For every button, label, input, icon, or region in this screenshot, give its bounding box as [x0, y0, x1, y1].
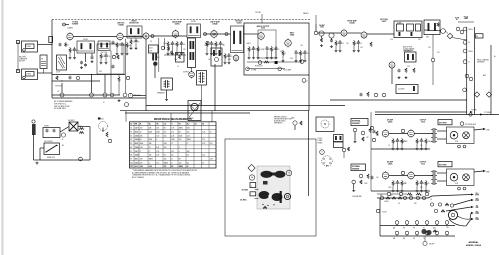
tube V10 FM RF — [341, 29, 347, 37]
svg-text:33K: 33K — [418, 39, 421, 41]
svg-text:SC: SC — [149, 124, 151, 126]
svg-text:33K: 33K — [262, 49, 265, 51]
capacitor C1 — [59, 43, 62, 47]
svg-text:10: 10 — [284, 53, 286, 55]
svg-text:68: 68 — [398, 203, 400, 205]
svg-text:OUTPUT: OUTPUT — [420, 120, 427, 122]
socket top view dashed — [322, 156, 332, 166]
T1 bottom parts — [80, 53, 87, 69]
row C labels — [393, 237, 425, 240]
ground G1 — [36, 162, 39, 165]
svg-text:220K: 220K — [156, 57, 160, 59]
bottom bus of AM section — [52, 97, 146, 99]
audio output label box — [149, 45, 159, 53]
heater line 2 — [246, 67, 292, 72]
svg-text:12K: 12K — [366, 137, 369, 139]
B- bus — [120, 110, 309, 112]
svg-text:TO PWR: TO PWR — [471, 110, 477, 112]
drum exits — [466, 212, 479, 227]
svg-text:12: 12 — [210, 132, 212, 134]
svg-text:D1: D1 — [195, 124, 197, 126]
dial drum — [448, 210, 470, 226]
svg-text:12BE6: 12BE6 — [135, 139, 139, 141]
fm ant top wire — [303, 12, 316, 24]
svg-text:2.2K: 2.2K — [407, 66, 410, 68]
tube V13 FM det — [389, 61, 395, 69]
svg-text:V3: V3 — [130, 135, 132, 137]
resistance table — [130, 122, 217, 168]
svg-text:R53: R53 — [410, 195, 413, 197]
svg-text:SHIELD: SHIELD — [318, 142, 323, 144]
resistor R17 — [103, 93, 107, 97]
svg-text:270: 270 — [210, 143, 213, 145]
row1 label — [387, 119, 394, 124]
svg-text:50C5: 50C5 — [261, 28, 265, 30]
alignment diamond A — [248, 164, 255, 171]
svg-text:270: 270 — [179, 162, 182, 164]
svg-text:H2: H2 — [179, 124, 181, 126]
svg-text:100: 100 — [420, 145, 423, 147]
wire V1 plate — [73, 36, 117, 38]
right col circle 2 — [463, 40, 470, 44]
top right corner wire — [455, 18, 474, 23]
svg-text:12BE6: 12BE6 — [135, 147, 139, 149]
FM antenna input — [314, 24, 325, 35]
svg-text:220K: 220K — [204, 45, 208, 47]
svg-text:68: 68 — [468, 42, 470, 44]
switch row C wire — [380, 235, 455, 237]
svg-text:50C5: 50C5 — [149, 47, 153, 49]
svg-text:V5: V5 — [130, 143, 132, 145]
tube V11 — [361, 31, 367, 39]
wire pilot — [133, 95, 146, 97]
svg-text:.5: .5 — [149, 162, 150, 164]
svg-text:12K: 12K — [376, 135, 379, 137]
mid small parts — [342, 147, 349, 158]
power-output section box — [244, 23, 309, 111]
vertical feed x313 — [308, 111, 310, 196]
fm mid cluster — [360, 92, 386, 97]
AM shield left edge — [51, 20, 53, 99]
svg-text:PRINTED CIRCUIT: PRINTED CIRCUIT — [274, 116, 287, 118]
arrow to board 2 — [255, 198, 259, 200]
svg-text:B: B — [288, 173, 289, 175]
bus pair upper — [375, 112, 499, 115]
terminal strip TS1 — [49, 37, 53, 46]
tube V2 12BA6 AM osc — [117, 32, 123, 41]
svg-text:12AV6: 12AV6 — [174, 22, 179, 25]
svg-text:10: 10 — [468, 62, 470, 64]
circled part — [206, 41, 209, 44]
pilot lamp I1 — [128, 93, 132, 97]
switch left vertical — [379, 198, 381, 236]
row1 right stub — [474, 128, 490, 131]
svg-text:68: 68 — [179, 158, 181, 160]
svg-text:270: 270 — [171, 132, 174, 134]
AM tuner shield top (dashed) — [52, 19, 310, 21]
bus drops to table — [126, 111, 212, 122]
mid bus segment — [146, 105, 345, 107]
pilot lamp I2 — [61, 133, 65, 137]
svg-text:TOT: TOT — [130, 166, 133, 168]
svg-text:12BE6: 12BE6 — [67, 28, 72, 30]
svg-text:R51: R51 — [390, 195, 393, 197]
vertical wire x164.3 — [163, 38, 165, 49]
row1 input parts — [370, 112, 378, 150]
svg-text:12: 12 — [140, 132, 142, 134]
top chain dots — [134, 33, 228, 38]
svg-text:4.7K: 4.7K — [140, 147, 143, 149]
svg-text:OUTPUT: OUTPUT — [183, 71, 189, 73]
svg-text:V2: V2 — [130, 132, 132, 134]
bus arrow right — [470, 110, 477, 114]
svg-text:PL: PL — [140, 124, 142, 126]
svg-text:DETECTOR: DETECTOR — [129, 22, 139, 24]
oscillator coil L2 — [98, 41, 110, 51]
IF box 1 — [250, 183, 256, 188]
IF amp drops — [206, 41, 225, 55]
right col circle 3 — [463, 49, 473, 53]
1st audio label — [172, 21, 182, 26]
svg-text:.05: .05 — [132, 42, 134, 44]
svg-text:V6: V6 — [130, 147, 132, 149]
svg-text:BRN: BRN — [487, 171, 490, 173]
svg-text:E: E — [321, 152, 322, 154]
svg-text:SEL RECT: SEL RECT — [68, 120, 75, 122]
svg-text:560K: 560K — [140, 143, 143, 145]
svg-text:ON-OFF: ON-OFF — [429, 244, 434, 246]
capacitor C3 — [112, 41, 115, 45]
onoff circle — [423, 236, 435, 246]
FM rf drops — [335, 40, 362, 52]
IF transformer T3 — [231, 26, 244, 53]
svg-text:50C5: 50C5 — [421, 121, 425, 123]
row B labels — [393, 227, 436, 230]
svg-text:47K: 47K — [107, 56, 110, 58]
svg-text:.05: .05 — [430, 199, 432, 201]
resistor R16 — [90, 93, 94, 97]
svg-text:OUTPUT: OUTPUT — [420, 162, 427, 164]
svg-text:470: 470 — [437, 52, 440, 54]
svg-text:EXT SPKR: EXT SPKR — [439, 122, 447, 124]
svg-text:NC: NC — [171, 166, 173, 168]
svg-text:LOOP: LOOP — [56, 72, 60, 74]
svg-text:220K: 220K — [404, 141, 408, 143]
phono jack bracket — [17, 41, 20, 73]
tube V7 50C5 output — [258, 32, 265, 41]
osc grid drops — [116, 42, 131, 55]
svg-text:2.2K: 2.2K — [156, 155, 159, 157]
svg-text:.001: .001 — [360, 47, 363, 49]
svg-text:SPKR: SPKR — [475, 200, 479, 202]
svg-text:1.2K: 1.2K — [202, 132, 205, 134]
svg-text:12AT7: 12AT7 — [382, 20, 387, 23]
row2 mid drops — [392, 180, 407, 192]
dial lamp — [125, 103, 129, 107]
svg-text:D2: D2 — [202, 124, 204, 126]
svg-text:220: 220 — [171, 151, 174, 153]
switch contact A1 — [380, 196, 383, 199]
svg-text:12: 12 — [171, 143, 173, 145]
svg-text:HTRS 121V: HTRS 121V — [255, 65, 262, 67]
audio transformer bars — [152, 54, 157, 61]
svg-text:.05: .05 — [230, 56, 232, 58]
svg-text:.05: .05 — [277, 49, 279, 51]
heater bus 2 — [52, 80, 100, 82]
svg-text:220K: 220K — [280, 51, 284, 53]
speaker SP2 jacks — [458, 187, 466, 190]
antenna terminal — [63, 23, 70, 26]
svg-text:3.2Ω: 3.2Ω — [455, 141, 458, 143]
svg-text:1: 1 — [251, 185, 252, 187]
svg-text:35W4: 35W4 — [290, 33, 294, 36]
svg-text:10: 10 — [177, 66, 179, 68]
table footnotes — [132, 169, 198, 179]
svg-text:.05: .05 — [427, 183, 429, 185]
external speaker title 2 — [351, 164, 366, 171]
svg-text:10.7MC: 10.7MC — [240, 200, 247, 202]
alignment circle 2A — [249, 175, 254, 180]
tube V8 35W4 rectifier — [285, 39, 292, 48]
svg-text:12K: 12K — [428, 47, 431, 49]
row1 wires — [371, 131, 447, 149]
switch contact A2 — [403, 196, 406, 199]
det drops — [224, 53, 233, 64]
grid drops V1 — [69, 47, 79, 59]
svg-text:1.2K: 1.2K — [187, 135, 190, 137]
svg-text:6BN6: 6BN6 — [135, 143, 139, 145]
switch contact A4 — [416, 196, 419, 199]
svg-text:TUNER: TUNER — [397, 23, 402, 25]
left heater parts — [56, 74, 120, 95]
1st IF transformer T1 455KC — [77, 41, 95, 53]
svg-text:12AV6: 12AV6 — [236, 21, 241, 24]
2nd IF amp label — [210, 21, 220, 26]
svg-text:6BN6: 6BN6 — [135, 158, 139, 160]
bus branch — [125, 112, 250, 114]
resistor R15 47 ohm — [58, 91, 65, 97]
output cluster tube V6B — [183, 71, 194, 79]
row A right exit — [428, 193, 479, 198]
svg-text:270: 270 — [202, 139, 205, 141]
right edge junction — [469, 112, 491, 116]
svg-text:455KC: 455KC — [191, 21, 197, 23]
b+ text — [255, 58, 293, 67]
output transformer T10 — [431, 128, 437, 143]
row1 mid drops — [392, 138, 406, 150]
svg-text:270: 270 — [164, 166, 167, 168]
svg-text:6X4: 6X4 — [101, 119, 104, 121]
svg-text:47: 47 — [202, 162, 204, 164]
alignment note text — [274, 116, 292, 124]
svg-text:H: H — [171, 124, 172, 126]
svg-text:RECORD: RECORD — [19, 57, 27, 59]
volume wire — [164, 54, 186, 56]
interlock text — [47, 144, 64, 159]
wire FM det drop — [391, 68, 393, 84]
trimmer tube A — [319, 31, 324, 47]
vertical wire x158.8 — [158, 38, 160, 72]
svg-text:V7: V7 — [130, 151, 132, 153]
power box drops — [248, 46, 280, 59]
row2 label — [387, 161, 394, 166]
svg-text:PH: PH — [413, 238, 415, 240]
vertical bus x215 — [214, 64, 216, 111]
svg-text:CORD: CORD — [475, 213, 479, 215]
svg-text:8.2K: 8.2K — [187, 128, 190, 130]
svg-text:4.7K: 4.7K — [171, 128, 174, 130]
selenium rectifier SR1 — [68, 120, 78, 131]
sub row B2 — [434, 206, 478, 213]
row2 feed — [370, 150, 372, 191]
svg-text:1.2K: 1.2K — [156, 135, 159, 137]
svg-text:2.2K: 2.2K — [228, 59, 231, 61]
tube socket dashed V9 — [98, 118, 108, 131]
pilot label — [464, 17, 469, 21]
dark bar component — [280, 191, 282, 203]
svg-text:TO PILOT: TO PILOT — [55, 86, 62, 88]
resistor R1 — [65, 43, 67, 47]
svg-text:560K: 560K — [156, 132, 159, 134]
lamp I3 — [79, 157, 83, 161]
svg-text:10K: 10K — [140, 135, 143, 137]
svg-text:10K: 10K — [149, 128, 152, 130]
tube socket blob 1 — [261, 171, 286, 178]
svg-text:SPKR FIELD: SPKR FIELD — [133, 95, 141, 97]
svg-text:TUNER: TUNER — [72, 24, 79, 26]
heater drop 3 — [104, 75, 106, 94]
svg-text:3.2Ω: 3.2Ω — [455, 183, 458, 185]
socket circle B — [286, 170, 292, 176]
svg-text:8.2K: 8.2K — [164, 143, 167, 145]
svg-text:270: 270 — [140, 128, 143, 130]
svg-text:TO SW: TO SW — [382, 212, 387, 214]
svg-text:V9: V9 — [130, 158, 132, 160]
svg-text:560K: 560K — [171, 139, 174, 141]
boxed label 4MEG — [475, 34, 483, 38]
svg-text:4.7K: 4.7K — [202, 143, 205, 145]
svg-text:10.7MC: 10.7MC — [242, 190, 249, 192]
svg-text:33K: 33K — [149, 143, 152, 145]
loop antenna L1 — [56, 55, 67, 74]
row2 bottom chain — [377, 192, 429, 195]
svg-text:2.2K: 2.2K — [171, 135, 174, 137]
svg-text:150: 150 — [202, 155, 205, 157]
svg-text:X: X — [307, 81, 308, 83]
socket small square — [263, 181, 268, 185]
wire xfrmr down — [155, 63, 168, 101]
power inner box — [258, 30, 276, 58]
svg-text:NC: NC — [187, 155, 189, 157]
svg-text:68: 68 — [150, 41, 152, 43]
svg-text:.02: .02 — [67, 45, 69, 47]
svg-text:.001: .001 — [300, 45, 303, 47]
trimmer tube B — [329, 33, 334, 48]
svg-text:6BN6: 6BN6 — [135, 132, 139, 134]
rect drops — [282, 50, 310, 62]
svg-text:117V: 117V — [290, 58, 293, 60]
sub row B1 — [430, 199, 478, 208]
svg-text:PL2: PL2 — [187, 124, 190, 126]
svg-text:R50: R50 — [380, 195, 383, 197]
heater drop 1 — [61, 83, 63, 93]
svg-text:220: 220 — [179, 139, 182, 141]
ext2 cluster — [352, 174, 374, 192]
model text — [466, 241, 481, 247]
svg-text:21.75MC DISC: 21.75MC DISC — [404, 50, 414, 52]
tube V1 12BE6 converter — [67, 32, 73, 41]
capacitor box C20 — [43, 126, 60, 138]
heater line 1 — [247, 60, 304, 65]
svg-text:10K: 10K — [149, 155, 152, 157]
right vertical bus 1 — [466, 27, 468, 115]
row2 right stub — [474, 170, 489, 173]
line cord — [34, 135, 41, 160]
socket marks — [262, 204, 274, 209]
wire chain 6 — [367, 33, 394, 35]
svg-text:.02: .02 — [137, 42, 139, 44]
heater row wire — [52, 94, 120, 96]
svg-text:8.2K: 8.2K — [156, 147, 159, 149]
svg-text:47K: 47K — [183, 49, 186, 51]
wire chain 4 — [244, 33, 258, 35]
svg-text:.001: .001 — [208, 59, 211, 61]
tube socket blob 2 — [259, 191, 283, 201]
cathode cap (dark) — [153, 62, 157, 66]
svg-text:560K: 560K — [179, 135, 182, 137]
on-off switch box — [44, 141, 60, 155]
switch row B contacts — [395, 221, 449, 226]
left branch circle — [376, 209, 387, 213]
svg-text:OUT: OUT — [149, 50, 152, 52]
svg-text:.05: .05 — [118, 45, 120, 47]
svg-text:455KC: 455KC — [83, 39, 89, 41]
svg-text:.5: .5 — [179, 147, 180, 149]
row2 out drops — [416, 180, 430, 192]
volume control box — [22, 41, 53, 52]
phono jack cluster — [291, 117, 302, 131]
tube V6 — [233, 54, 239, 62]
svg-text:12BA6: 12BA6 — [212, 22, 217, 25]
svg-text:47K: 47K — [404, 183, 407, 185]
svg-text:P: P — [130, 95, 131, 97]
svg-text:ADMIRAL: ADMIRAL — [468, 241, 479, 244]
svg-text:.001: .001 — [306, 53, 309, 55]
ratio detector label — [129, 20, 139, 25]
tube V12 — [441, 29, 446, 34]
osc section outer box — [97, 44, 124, 74]
svg-text:ON-OFF SW: ON-OFF SW — [44, 141, 53, 143]
svg-text:33K: 33K — [102, 56, 105, 58]
FM IF note — [403, 45, 414, 52]
heater circles mid — [103, 39, 141, 104]
FM converter label — [380, 19, 389, 23]
mid small box pair — [334, 135, 344, 148]
svg-text:220K: 220K — [163, 43, 167, 45]
osc coil drops — [100, 53, 110, 64]
speaker transformer box — [161, 78, 173, 90]
wire chain 8 — [445, 31, 448, 34]
ext1 cluster — [353, 128, 375, 143]
record changer label — [19, 57, 28, 63]
svg-text:NC: NC — [171, 155, 173, 157]
svg-text:SHOWN FROM BOTTOM: SHOWN FROM BOTTOM — [274, 118, 292, 120]
svg-text:47: 47 — [103, 102, 105, 104]
power transformer winding — [32, 120, 36, 135]
padder trimmer — [91, 53, 94, 63]
svg-text:OSC COIL: OSC COIL — [100, 52, 107, 54]
FM tuner box — [394, 21, 422, 38]
